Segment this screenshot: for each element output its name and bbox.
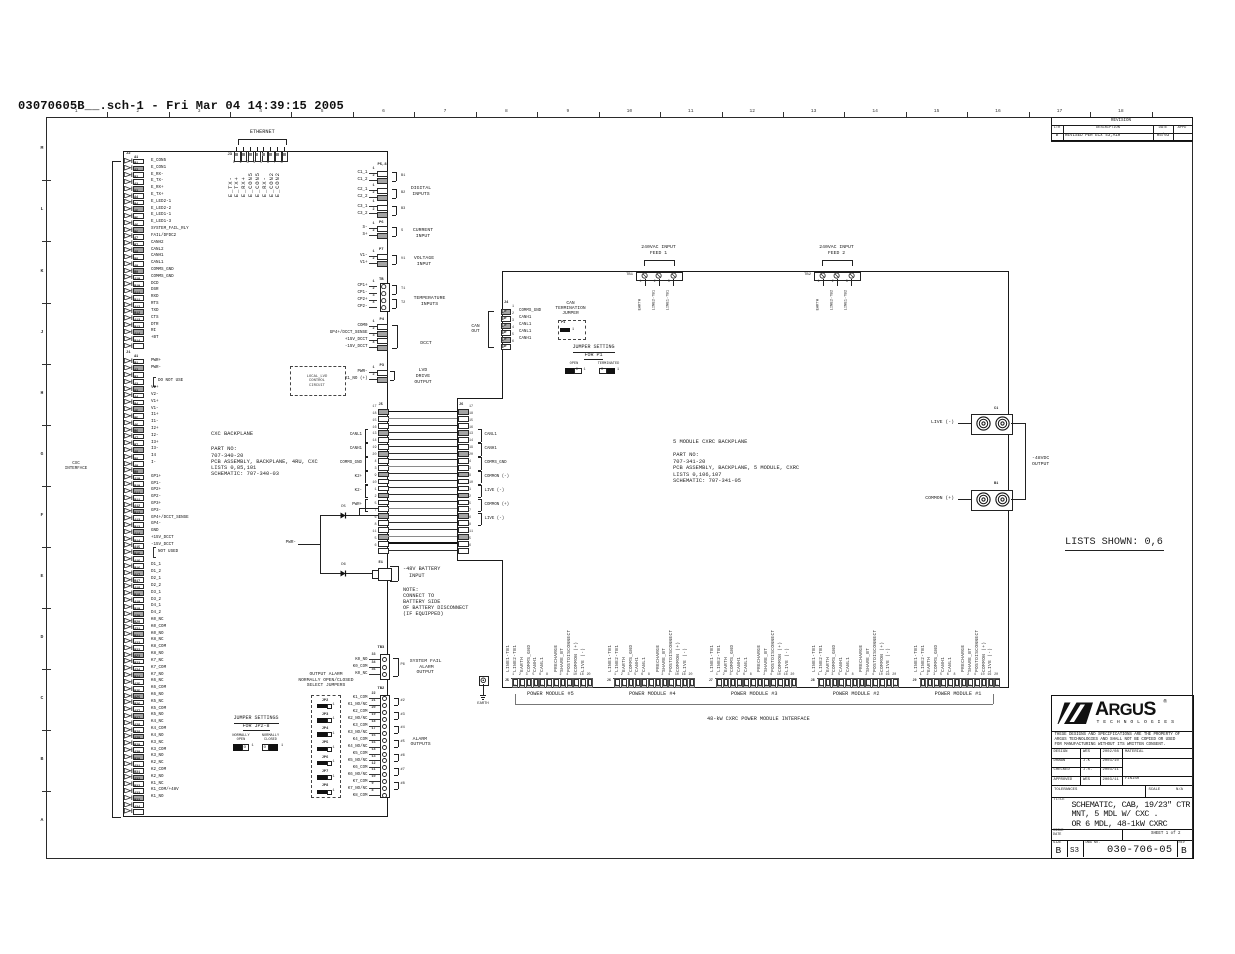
- title block approval grid: [1051, 748, 1192, 749]
- J1 pin B31 K2_NO: [124, 774, 133, 779]
- J2 pin A7 CANH2: [124, 240, 133, 245]
- feed 1 bracket: [644, 260, 674, 261]
- J2 pin A5 E_LED1-1: [124, 213, 133, 218]
- J6 pin 3: [458, 472, 469, 478]
- J6 pin 16: [458, 430, 469, 436]
- J1 pin A27 K5_NO: [124, 713, 133, 718]
- frame zone ticks top: [107, 112, 108, 117]
- J1 pin A20 K0_NC: [124, 618, 133, 623]
- connector J9 power module #1: [913, 680, 917, 683]
- terminal block B1 COMMON (+): [994, 483, 998, 487]
- connector J7 power module #3: [709, 680, 713, 683]
- J5 pin 4 SHARE_BT: [567, 678, 573, 688]
- J6 pin 14: [458, 444, 469, 450]
- wire to J5 pin (upper): [320, 515, 378, 516]
- alarm bracket #2: [398, 712, 399, 719]
- P4 pin -15V_DCCT: [168, 345, 368, 349]
- POWER MODULE #4 label: [502, 692, 802, 697]
- J1 pin B32 K1_COM/+48V: [124, 788, 133, 793]
- J6 pin 4: [458, 465, 469, 471]
- connector TB3 system fail alarm: [378, 647, 385, 651]
- CXC INTERFACE label: [0, 462, 226, 466]
- connector J1 (CXC interface lower): [126, 352, 131, 356]
- J5 pin 2 PRECHARGE: [560, 678, 566, 688]
- J1 pin B29 K3_COM: [124, 747, 133, 752]
- connector J6 power module #4: [607, 680, 611, 683]
- J5 pin 14: [378, 444, 389, 450]
- J4 pin 6: [501, 344, 511, 350]
- bus wire 5: [388, 508, 458, 509]
- J1 pin B16 D1_2: [124, 570, 133, 575]
- P7 pin V1-: [168, 254, 368, 258]
- J1 pin A15 NOT USED: [124, 549, 133, 554]
- J7 pin 2 PRECHARGE: [764, 678, 770, 688]
- TB2 pin 1 EARTH: [819, 272, 826, 279]
- J2 pin A3 E_RX+: [124, 186, 133, 191]
- J2 pin B2 E_TX-: [124, 179, 133, 184]
- J6 pin 10: [458, 486, 469, 492]
- J5 pin 9: [378, 479, 389, 485]
- bracket DCCT: [397, 325, 398, 348]
- J7 pin 3 EARTH: [730, 678, 736, 688]
- DCCT label: [420, 342, 432, 347]
- J1 pin B2 DO NOT USE: [124, 379, 133, 384]
- bus group label COMMS_GND left: [365, 457, 366, 470]
- J3 pin 1 E_TX-: [236, 147, 237, 151]
- J8 pin 10 POSTDISCONNECT: [879, 678, 885, 688]
- connector TB2 alarm outputs: [378, 688, 385, 692]
- bus wire 15: [388, 425, 458, 426]
- connector TB2 feed 2: [814, 272, 861, 281]
- J6 pin 18: [458, 416, 469, 422]
- jumper JP4: [175, 728, 475, 732]
- connector J3 ethernet: [228, 154, 233, 158]
- connector J5 (CXC side of bus): [379, 404, 383, 408]
- bracket T1: [396, 285, 397, 294]
- CAN termination jumper dashed box: [558, 320, 586, 340]
- J9 pin 10 POSTDISCONNECT: [981, 678, 987, 688]
- TB2 pin 8 K8_COM: [168, 794, 368, 798]
- TB2 pin 12 K6_COM: [168, 766, 368, 770]
- bus group label CANH1 right: [481, 443, 482, 456]
- J2 pin A10 DCD: [124, 281, 133, 286]
- J8 pin 8 CANL1: [852, 678, 858, 688]
- bracket P6 system fail: [398, 658, 399, 677]
- J6 pin 2: [458, 500, 469, 506]
- POWER MODULE #1 label: [808, 692, 1108, 697]
- TB2 pin 15 K4_NO/NC: [168, 745, 368, 749]
- drawing border frame: [46, 117, 1193, 859]
- J1 pin A29 K3_NC: [124, 740, 133, 745]
- -48V BATTERY INPUT label: [403, 567, 440, 572]
- J4 pin 3 CANL1: [501, 323, 511, 329]
- J9 pin: [961, 678, 967, 688]
- J1 pin B18 D3_2: [124, 597, 133, 602]
- wire PWR- horizontal: [298, 544, 320, 545]
- bus group label LIVE (-) right: [481, 485, 482, 498]
- connector TB1 feed 1: [636, 272, 683, 281]
- wire jog to J5 pin 5: [359, 508, 360, 515]
- tolerances row: [1051, 785, 1192, 786]
- J2 pin B6 FAIL/DFDC2: [124, 233, 133, 238]
- jumper JP7: [175, 771, 475, 775]
- J9 pin 3 EARTH: [934, 678, 940, 688]
- J6 pin 3 EARTH: [628, 678, 634, 688]
- J5 pin 4: [378, 465, 389, 471]
- jumper JP5: [175, 742, 475, 746]
- J1 pin B30 K2_NC: [124, 761, 133, 766]
- TB pin CP1+: [168, 284, 368, 288]
- J2 pin B4 E_LED2-2: [124, 206, 133, 211]
- connector P6 current input: [379, 222, 384, 226]
- J1 pin A12 GP3-: [124, 508, 133, 513]
- frame zone ticks left: [42, 180, 51, 181]
- OUTPUT ALARM SELECT JUMPERS label: [176, 673, 476, 678]
- CXC backplane box outline: [123, 151, 388, 152]
- J1 pin A8 I4: [124, 454, 133, 459]
- TB1 pin 1 EARTH: [641, 272, 648, 279]
- J6 pin 13: [458, 437, 469, 443]
- jumper JP2: [175, 700, 475, 704]
- bus group label PWR+ left: [365, 499, 366, 512]
- J1 pin A33 K1_NO: [124, 795, 133, 800]
- P4 pin GP4+/DCCT_SENSE: [168, 331, 368, 335]
- TB2 pin 21 K1_NO/NC: [168, 703, 368, 707]
- J2 pin A13 DTR: [124, 322, 133, 327]
- connector J2 (CXC interface upper): [126, 153, 131, 157]
- P6 pin S-: [168, 226, 368, 230]
- J1 pin A10 GP1-: [124, 481, 133, 486]
- bus wire 20: [388, 459, 458, 460]
- J6 pin: [655, 678, 661, 688]
- J1 pin A26 K5_NC: [124, 699, 133, 704]
- J6 pin 15: [458, 423, 469, 429]
- jumper JP3: [175, 714, 475, 718]
- J8 pin 1 LINE1-TB1: [818, 678, 824, 688]
- TB2 pin 9 K7_NO/NC: [168, 787, 368, 791]
- VOLTAGE INPUT label: [274, 257, 574, 262]
- J1 pin A5 I1+: [124, 413, 133, 418]
- J2 pin A4 E_LED2-1: [124, 199, 133, 204]
- 48-kW CXRC POWER MODULE INTERFACE label: [707, 717, 810, 722]
- bus group label K2+ left: [365, 471, 366, 484]
- bus wire 2: [388, 501, 458, 502]
- J5 pin: [553, 678, 559, 688]
- P7 pin V1+: [168, 261, 368, 265]
- J1 pin B12 GP4+/DCCT_SENSE: [124, 515, 133, 520]
- J6 pin 8 CANL1: [648, 678, 654, 688]
- J1 pin A13 GP4-: [124, 522, 133, 527]
- J6 pin 17: [458, 409, 469, 415]
- J5 pin 6: [378, 548, 389, 554]
- CAN TERMINATION JUMPER label: [421, 302, 721, 307]
- Argus logo: [1057, 702, 1094, 725]
- J7 pin 20 LIVE (-): [791, 678, 797, 688]
- J9 pin 6 CANH1: [947, 678, 953, 688]
- J5 pin 8 CANL1: [546, 678, 552, 688]
- TB2 pin 10 K7_COM: [168, 780, 368, 784]
- P4 pin COM0: [168, 324, 368, 328]
- alarm bracket #5: [398, 754, 399, 761]
- J6 pin 1: [458, 493, 469, 499]
- J1 pin B8 I-: [124, 461, 133, 466]
- diode D6: [340, 570, 349, 577]
- J4 pin 2 CANH1: [501, 316, 511, 322]
- J1 pin B5 I1-: [124, 420, 133, 425]
- ETHERNET bracket: [238, 139, 287, 140]
- J5 pin 19: [378, 451, 389, 457]
- J2 pin B1 E_CON1: [124, 165, 133, 170]
- J2 pin A14 +BT: [124, 336, 133, 341]
- J9 pin 20 LIVE (-): [994, 678, 1000, 688]
- J5 pin 2: [378, 500, 389, 506]
- bus wire 7: [388, 515, 458, 516]
- -48VDC OUTPUT label: [1032, 457, 1049, 462]
- J1 pin B17 D2_2: [124, 583, 133, 588]
- COMMON (+) label: [754, 497, 954, 502]
- connector J5 power module #5: [505, 680, 509, 683]
- J2 pin B7 CANL2: [124, 247, 133, 252]
- TB2 pin 2 LINE2-TB2: [833, 272, 840, 279]
- J8 pin 16 COMMON (+): [886, 678, 892, 688]
- J1 pin A18 D3_1: [124, 590, 133, 595]
- J1 pin B25 K6_NO: [124, 693, 133, 698]
- TB pin CP2-: [168, 305, 368, 309]
- J2 pin A1 E_CON5: [124, 158, 133, 163]
- issue date row: [1051, 829, 1192, 830]
- TB2 pin 11 K6_NO/NC: [168, 773, 368, 777]
- J1 pin A28 K4_COM: [124, 727, 133, 732]
- bus wire 3: [388, 473, 458, 474]
- J1 pin A21 K0_NO: [124, 631, 133, 636]
- TB1 pin 3 LINE1-TB1: [670, 272, 677, 279]
- J9 pin 5 COMMS_GND: [940, 678, 946, 688]
- J6 pin 8: [458, 527, 469, 533]
- LVD DRIVE OUTPUT label: [273, 369, 573, 374]
- DIGITAL INPUTS label: [271, 187, 571, 192]
- J1 pin A11 GP2-: [124, 495, 133, 500]
- J1 pin B6 I2-: [124, 433, 133, 438]
- POWER MODULE #2 label: [706, 692, 1006, 697]
- J1 pin B26 K5_COM: [124, 706, 133, 711]
- J1 pin A19 D4_1: [124, 604, 133, 609]
- J1 pin A32 K1_NC: [124, 781, 133, 786]
- wire to battery connector: [320, 573, 372, 574]
- title block outline: [1051, 695, 1194, 859]
- J3 pin 2 E_TX+: [243, 147, 244, 151]
- bracket B3: [396, 206, 397, 215]
- J6 pin 5: [458, 541, 469, 547]
- J4 pin 5 CANH1: [501, 337, 511, 343]
- JUMPER SETTING FOR P1 label: [444, 345, 744, 350]
- J9 pin 1 LINE1-TB1: [920, 678, 926, 688]
- J1 pin A7 I3+: [124, 440, 133, 445]
- terminal block C1 LIVE (-): [994, 408, 998, 412]
- connector J6 (CXRC side of bus): [459, 404, 463, 408]
- 240VAC INPUT FEED 1 label: [509, 246, 809, 251]
- J8 pin 6 CANH1: [845, 678, 851, 688]
- bus wire 1: [388, 494, 458, 495]
- bus wire 11: [388, 536, 458, 537]
- J5 pin 16 COMMON (+): [580, 678, 586, 688]
- P5,8 pin C3_2: [168, 212, 368, 216]
- bus group label CANL1 left: [365, 429, 366, 442]
- connector P7 voltage input: [379, 249, 384, 253]
- J1 pin A24 K7_NO: [124, 672, 133, 677]
- bus wire 19: [388, 453, 458, 454]
- TB2 pin 20 K2_COM: [168, 710, 368, 714]
- J5 pin 10 POSTDISCONNECT: [573, 678, 579, 688]
- J3 pin 5 E_CON5: [263, 147, 264, 151]
- J1 pin A16 D1_1: [124, 563, 133, 568]
- J5 pin 5 COMMS_GND: [533, 678, 539, 688]
- J5 pin 13: [378, 437, 389, 443]
- alarm bracket #3: [398, 726, 399, 733]
- J6 pin 20 LIVE (-): [689, 678, 695, 688]
- J2 pin B3 E_TX+: [124, 193, 133, 198]
- J7 pin 4 SHARE_BT: [770, 678, 776, 688]
- J5 pin 20 LIVE (-): [587, 678, 593, 688]
- CXC backplane part number text: [211, 432, 253, 437]
- J1 pin A14 +15V_DCCT: [124, 536, 133, 541]
- POWER MODULE #3 label: [604, 692, 904, 697]
- J8 pin 5 COMMS_GND: [838, 678, 844, 688]
- LIVE (-) label: [754, 421, 954, 426]
- J1 pin A34: [124, 808, 133, 813]
- J7 pin 1 LINE1-TB1: [716, 678, 722, 688]
- J8 pin 20 LIVE (-): [893, 678, 899, 688]
- bracket LVD: [394, 371, 395, 380]
- TB2 pin 14 K5_COM: [168, 752, 368, 756]
- J1 pin B23 K7_COM: [124, 665, 133, 670]
- bus group label CANL1 right: [481, 429, 482, 442]
- TB1 pin 2 LINE2-TB1: [655, 272, 662, 279]
- J5 pin 3 EARTH: [526, 678, 532, 688]
- SYSTEM FAIL ALARM OUTPUT label: [410, 660, 442, 665]
- POWER MODULE #5 label: [400, 692, 700, 697]
- J1 pin B24 K6_NC: [124, 679, 133, 684]
- bus wire 8: [388, 529, 458, 530]
- J1 pin A3 V2+: [124, 386, 133, 391]
- J8 pin 2 PRECHARGE: [865, 678, 871, 688]
- J1 pin B11 GP3+: [124, 502, 133, 507]
- diode D5: [340, 512, 349, 519]
- J9 pin 8 CANL1: [954, 678, 960, 688]
- J6 pin 9: [458, 479, 469, 485]
- J5 pin 1 LINE1-TB1: [512, 678, 518, 688]
- P6 pin S+: [168, 233, 368, 237]
- J8 pin: [859, 678, 865, 688]
- CAN OUT label: [326, 325, 626, 330]
- J9 pin 2 LINE2-TB1: [927, 678, 933, 688]
- CXC interface bracket: [112, 161, 113, 817]
- ETHERNET label: [112, 130, 412, 135]
- JUMPER SETTINGS FOR JP2-8 label: [106, 716, 406, 721]
- J4 pin 1 COMMS_GND: [501, 309, 511, 315]
- P5,8 pin C1_2: [168, 178, 368, 182]
- J5 pin 18: [378, 416, 389, 422]
- J4 pin 4 CANL1: [501, 330, 511, 336]
- J1 pin B4 V1-: [124, 406, 133, 411]
- J1 pin A4 V1+: [124, 399, 133, 404]
- bus wire 6: [388, 550, 458, 551]
- J6 pin 11: [458, 534, 469, 540]
- J5 pin 2 LINE2-TB1: [519, 678, 525, 688]
- alarm bracket #7: [398, 782, 399, 789]
- J2 pin B9 COMMS_GND: [124, 274, 133, 279]
- P4 pin +15V_DCCT: [168, 338, 368, 342]
- battery input bracket: [398, 566, 399, 581]
- J1 pin B27 K4_NC: [124, 720, 133, 725]
- J1 pin A1 PWR+: [124, 358, 133, 363]
- CAN OUT bracket: [488, 311, 489, 347]
- J9 pin 2 PRECHARGE: [967, 678, 973, 688]
- CXRC backplane part number text: [673, 440, 747, 445]
- connector E1 -48V battery input: [379, 562, 384, 566]
- bus wire 9: [388, 480, 458, 481]
- PWR- net label: [96, 541, 296, 545]
- -48VDC output bracket: [1011, 423, 1025, 424]
- J6 pin 10 POSTDISCONNECT: [675, 678, 681, 688]
- J1 pin A23 K7_NC: [124, 658, 133, 663]
- bracket B1: [396, 172, 397, 181]
- NORMALLY OPEN legend: [91, 735, 391, 739]
- connector J8 power module #2: [811, 680, 815, 683]
- J7 pin 16 COMMON (+): [784, 678, 790, 688]
- J2 pin B10 DSR: [124, 288, 133, 293]
- J7 pin 8 CANL1: [750, 678, 756, 688]
- P5,8 pin C3_1: [168, 205, 368, 209]
- J1 pin B33: [124, 802, 133, 807]
- bus group label COMMON (+) right: [481, 499, 482, 512]
- J6 pin 4 SHARE_BT: [668, 678, 674, 688]
- J5 pin 3: [378, 472, 389, 478]
- J3 pin 7 E_CON2: [277, 147, 278, 151]
- J5 pin 1: [378, 493, 389, 499]
- bracket T2: [396, 299, 397, 308]
- TB2 pin 13 K5_NO/NC: [168, 759, 368, 763]
- bus group label LIVE (-) right: [481, 513, 482, 526]
- J8 pin 2 LINE2-TB1: [825, 678, 831, 688]
- J1 pin B10 GP2+: [124, 488, 133, 493]
- J6 pin 16 COMMON (+): [682, 678, 688, 688]
- J5 pin 5: [378, 541, 389, 547]
- J1 pin B22 K8_NO: [124, 652, 133, 657]
- feed 2 bracket: [822, 260, 852, 261]
- J5 pin 10: [378, 486, 389, 492]
- J9 pin 16 COMMON (+): [988, 678, 994, 688]
- TB pin CP1-: [168, 291, 368, 295]
- J1 pin B14 -15V_DCCT: [124, 542, 133, 547]
- J2 pin A2 E_RX-: [124, 172, 133, 177]
- J1 pin B20 K0_COM: [124, 624, 133, 629]
- J1 pin A6 I2+: [124, 427, 133, 432]
- bus wire 17: [388, 411, 458, 413]
- bracket S: [396, 227, 397, 236]
- J5 pin 5: [378, 506, 389, 512]
- J2 pin B8 CANL1: [124, 261, 133, 266]
- J1 pin A9: [124, 467, 133, 472]
- jumper JP6: [175, 757, 475, 761]
- NORMALLY CLOSED legend: [121, 735, 421, 739]
- J5 pin 11: [378, 534, 389, 540]
- J2 pin B5 E_LED1-3: [124, 220, 133, 225]
- J6 pin 1 LINE1-TB1: [614, 678, 620, 688]
- J6 pin 20: [458, 458, 469, 464]
- earth ground symbol: [479, 676, 489, 687]
- P3 pin K1_NO (+): [168, 377, 368, 381]
- J1 pin A17 D2_1: [124, 577, 133, 582]
